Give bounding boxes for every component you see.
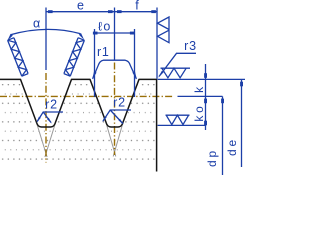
svg-text:ko: ko — [192, 103, 206, 121]
svg-text:k: k — [192, 84, 206, 93]
thread material profile — [0, 79, 157, 171]
pitch line (orange dash-dot horizontal) — [0, 95, 174, 97]
dimension line e and f — [46, 11, 157, 13]
r2 arrows groove2 — [102, 116, 107, 122]
left tool flank (hatched strip) — [8, 38, 29, 76]
surface symbol stacked triangles at f extension — [158, 17, 170, 43]
dim arrows f — [117, 10, 122, 13]
extension line tooth center — [114, 8, 116, 61]
svg-text:f: f — [135, 0, 139, 13]
root plane reference line — [158, 124, 206, 126]
dim arrows k — [204, 73, 207, 78]
dim arrows lo — [93, 32, 98, 35]
groove 1 sharp-V extension lines — [37, 123, 56, 157]
radius r3 leader — [159, 53, 196, 76]
material stipple fill — [0, 80, 157, 168]
lo left extension — [94, 29, 96, 97]
extension line at groove1 center — [45, 8, 47, 71]
alpha arc arrowheads — [7, 34, 13, 41]
extension line at x=157 (f end) — [156, 8, 158, 79]
lo right extension — [134, 29, 136, 97]
dimension line lo — [95, 32, 135, 34]
svg-text:r2: r2 — [113, 96, 126, 110]
pitch plane reference line (blue part) — [178, 95, 223, 97]
dim arrows e — [48, 10, 53, 13]
groove 2 sharp-V extension lines — [106, 123, 123, 156]
dimension line k and ko — [205, 64, 207, 130]
svg-text:ℓo: ℓo — [98, 20, 112, 34]
centerline groove 1 (orange dash-dot) — [45, 73, 47, 163]
svg-text:de: de — [225, 137, 239, 156]
svg-text:r3: r3 — [184, 39, 197, 53]
angle alpha arc — [11, 29, 81, 34]
reference tooth profile with crest radius r1 — [93, 60, 137, 79]
blue tooth flank arrows — [92, 72, 96, 80]
svg-text:r1: r1 — [97, 45, 110, 59]
centerline tooth/groove 2 (orange dash-dot) — [114, 63, 116, 156]
surface finish symbol on crest — [161, 68, 191, 78]
dim arrow de — [240, 82, 243, 87]
dimension line de — [241, 79, 243, 167]
radius r2 leader (groove 1) — [37, 112, 63, 123]
dim arrows ko — [204, 121, 207, 126]
surface finish symbol on root — [166, 115, 190, 124]
right tool flank (hatched strip) — [64, 38, 85, 76]
svg-text:α: α — [33, 17, 40, 31]
crest plane reference line — [158, 78, 245, 80]
svg-text:dp: dp — [205, 148, 219, 167]
r3 arrow — [158, 71, 164, 78]
radius r2 leader (groove 2) — [103, 110, 131, 124]
dim arrow dp — [221, 99, 224, 104]
dimension line dp — [222, 96, 224, 175]
r2 arrows groove1 — [36, 117, 40, 123]
svg-text:e: e — [77, 0, 84, 13]
svg-text:r2: r2 — [45, 98, 58, 112]
